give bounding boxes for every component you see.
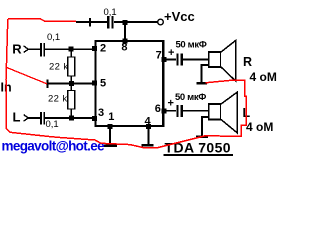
node: junction R line / R1 (69, 47, 74, 52)
svg-text:megavolt@hot.ee: megavolt@hot.ee (2, 139, 106, 154)
pin 3 (92, 116, 97, 121)
svg-text:22 k: 22 k (48, 94, 68, 105)
op-amp U1 TDA7050 body (95, 41, 163, 126)
wire: red bottom bus (6, 128, 241, 148)
svg-text:22 k: 22 k (49, 62, 69, 73)
resistor R1 22k lead top (70, 50, 72, 57)
capacitor C3 0,1 (L input) plates (41, 112, 44, 125)
wire: C5 to speaker L (183, 110, 209, 112)
svg-text:TDA 7050: TDA 7050 (165, 140, 232, 156)
wire: vertical from supply node to pin 8 (124, 23, 126, 40)
node: junction on supply wire above pin 8 (123, 20, 128, 25)
svg-text:8: 8 (121, 42, 127, 54)
wire: top supply wire black segment (76, 21, 158, 23)
pin 6 (161, 108, 166, 113)
ground: pin 1 (104, 145, 117, 147)
speaker LS1 horn (221, 41, 236, 82)
svg-text:L: L (13, 110, 21, 125)
speaker LS2 box (209, 104, 221, 120)
speaker LS2 horn (221, 92, 237, 133)
wire: cap to pin 3 (45, 117, 93, 119)
svg-text:1: 1 (108, 111, 114, 123)
wire: cap to pin 2 (45, 48, 93, 50)
svg-text:50 мкФ: 50 мкФ (176, 40, 207, 51)
wire: red input tap diagonal (6, 67, 47, 84)
wire: red right loop (206, 80, 247, 137)
pin 7 (161, 57, 166, 62)
ground: pin 4 (142, 144, 154, 146)
capacitor C1 0,1 (Vcc bypass) plates (108, 16, 112, 29)
pin 1 (108, 124, 113, 129)
svg-text:0,1: 0,1 (47, 32, 60, 43)
svg-text:50 мкФ: 50 мкФ (175, 92, 206, 103)
capacitor C2 0,1 (R input) plates (41, 43, 44, 56)
pin 8 (123, 39, 128, 44)
capacitor C5 50uF plates (178, 105, 182, 117)
wire: red left border (6, 19, 8, 128)
wire: speaker L return to ground (202, 117, 209, 136)
capacitor C4 50uF plates (178, 53, 182, 65)
svg-text:6: 6 (155, 103, 161, 115)
wire: pin 7 to C4 (164, 58, 176, 60)
svg-text:4: 4 (145, 116, 152, 128)
wire: R input to cap (29, 48, 41, 50)
pin 5 (92, 81, 97, 86)
wire: pin 6 to C5 (164, 110, 176, 112)
svg-text:4 оМ: 4 оМ (250, 70, 277, 84)
svg-text:0,1: 0,1 (104, 7, 117, 18)
resistor R1 22k body (68, 57, 75, 76)
wire: tap to pin 5 (48, 83, 94, 85)
svg-text:2: 2 (100, 43, 106, 55)
node: input tap tick (46, 80, 48, 89)
wire: C4 to speaker R (183, 58, 209, 60)
wire: red ground bus top segment (8, 19, 76, 22)
wire: pin 4 to ground (148, 129, 150, 144)
resistor R2 22k body (68, 91, 75, 110)
ground: speaker R (197, 82, 208, 84)
underline of TDA 7050 (164, 154, 234, 156)
connector chevron R input (24, 46, 29, 53)
resistor R2 lead bottom (70, 109, 72, 118)
svg-text:7: 7 (156, 50, 162, 62)
node: junction mid line / resistor chain (69, 81, 74, 86)
svg-text:3: 3 (98, 107, 104, 119)
svg-text:5: 5 (100, 78, 106, 90)
svg-text:R: R (12, 42, 22, 57)
resistor R2 22k lead top (70, 86, 72, 91)
svg-text:0,1: 0,1 (46, 119, 59, 130)
resistor R1 lead bottom (70, 76, 72, 81)
svg-text:+: + (168, 98, 174, 110)
speaker LS1 box (209, 52, 221, 67)
wire: pin 1 to ground (109, 129, 111, 145)
pin 4 (146, 124, 151, 129)
node: ground-tap tick on supply wire (89, 18, 91, 27)
wire: L input to cap (29, 117, 41, 119)
ground: speaker L (196, 136, 208, 138)
svg-text:+Vcc: +Vcc (164, 9, 195, 24)
svg-text:+: + (168, 47, 174, 59)
wire: speaker R return to ground (202, 65, 209, 82)
connector chevron L input (24, 115, 29, 122)
node: junction L line / R2 (69, 116, 74, 121)
svg-text:R: R (243, 55, 252, 69)
terminal +Vcc open circle (158, 19, 164, 25)
pin 2 (92, 46, 97, 51)
svg-text:4 оМ: 4 оМ (246, 120, 273, 134)
